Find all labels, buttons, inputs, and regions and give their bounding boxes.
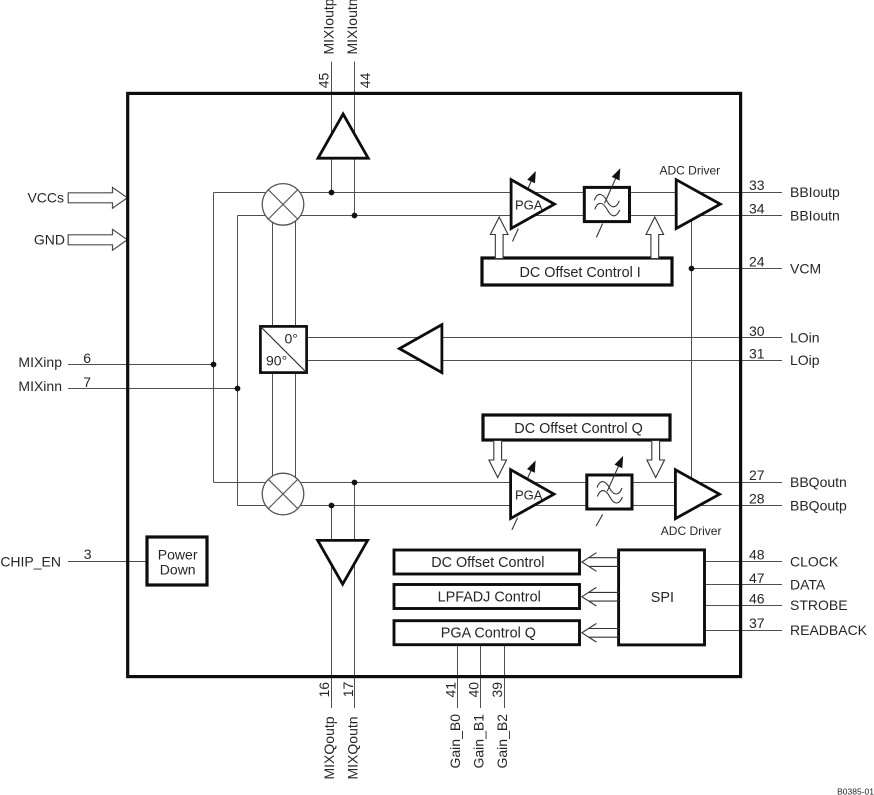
svg-text:DATA: DATA (790, 577, 826, 593)
svg-text:DC Offset Control I: DC Offset Control I (520, 265, 641, 281)
svg-text:44: 44 (357, 73, 373, 89)
svg-text:BBIoutp: BBIoutp (790, 184, 840, 200)
svg-text:16: 16 (316, 682, 332, 698)
svg-text:VCCs: VCCs (27, 190, 64, 206)
svg-text:MIXQoutp: MIXQoutp (321, 716, 337, 779)
svg-text:MIXQoutn: MIXQoutn (344, 716, 360, 779)
svg-text:PGA: PGA (515, 487, 543, 502)
svg-text:CLOCK: CLOCK (790, 554, 839, 570)
svg-text:DC Offset Control Q: DC Offset Control Q (514, 421, 643, 437)
svg-text:BBQoutn: BBQoutn (790, 474, 847, 490)
svg-text:Power: Power (158, 547, 198, 563)
svg-text:SPI: SPI (651, 590, 674, 606)
svg-text:BBIoutn: BBIoutn (790, 207, 840, 223)
svg-text:STROBE: STROBE (790, 597, 848, 613)
svg-text:ADC Driver: ADC Driver (660, 163, 721, 177)
svg-text:90°: 90° (266, 353, 287, 369)
svg-text:24: 24 (749, 254, 765, 270)
svg-text:37: 37 (749, 615, 765, 631)
svg-text:PGA Control Q: PGA Control Q (441, 626, 536, 642)
svg-text:28: 28 (749, 491, 765, 507)
svg-text:31: 31 (749, 345, 765, 361)
svg-text:41: 41 (442, 682, 458, 698)
svg-text:6: 6 (83, 350, 91, 366)
svg-text:MIXIoutn: MIXIoutn (344, 0, 360, 55)
svg-text:B0385-01: B0385-01 (837, 787, 874, 795)
svg-text:3: 3 (84, 546, 92, 562)
svg-text:PGA: PGA (515, 198, 543, 213)
svg-text:LOip: LOip (790, 352, 820, 368)
svg-text:VCM: VCM (790, 261, 821, 277)
svg-text:47: 47 (749, 570, 765, 586)
svg-text:MIXinp: MIXinp (18, 354, 62, 370)
svg-text:LPFADJ Control: LPFADJ Control (438, 590, 541, 606)
svg-text:ADC Driver: ADC Driver (661, 524, 722, 538)
svg-text:GND: GND (34, 232, 65, 248)
svg-text:READBACK: READBACK (790, 622, 868, 638)
svg-text:39: 39 (489, 682, 505, 698)
svg-text:MIXIoutp: MIXIoutp (321, 0, 337, 55)
svg-text:46: 46 (749, 590, 765, 606)
svg-text:Gain_B2: Gain_B2 (494, 714, 510, 769)
svg-text:MIXinn: MIXinn (18, 378, 62, 394)
svg-text:Down: Down (160, 562, 196, 578)
svg-text:0°: 0° (285, 331, 298, 347)
svg-text:40: 40 (466, 682, 482, 698)
svg-text:34: 34 (749, 200, 765, 216)
svg-text:Gain_B0: Gain_B0 (447, 714, 463, 769)
svg-text:7: 7 (83, 374, 91, 390)
svg-text:BBQoutp: BBQoutp (790, 498, 847, 514)
svg-text:30: 30 (749, 323, 765, 339)
svg-text:48: 48 (749, 547, 765, 563)
svg-text:DC Offset Control: DC Offset Control (431, 555, 544, 571)
svg-text:45: 45 (316, 73, 332, 89)
svg-text:27: 27 (749, 467, 765, 483)
svg-text:CHIP_EN: CHIP_EN (0, 554, 61, 570)
svg-text:17: 17 (340, 682, 356, 698)
svg-text:LOin: LOin (790, 330, 820, 346)
svg-text:33: 33 (749, 177, 765, 193)
svg-text:Gain_B1: Gain_B1 (471, 714, 487, 769)
